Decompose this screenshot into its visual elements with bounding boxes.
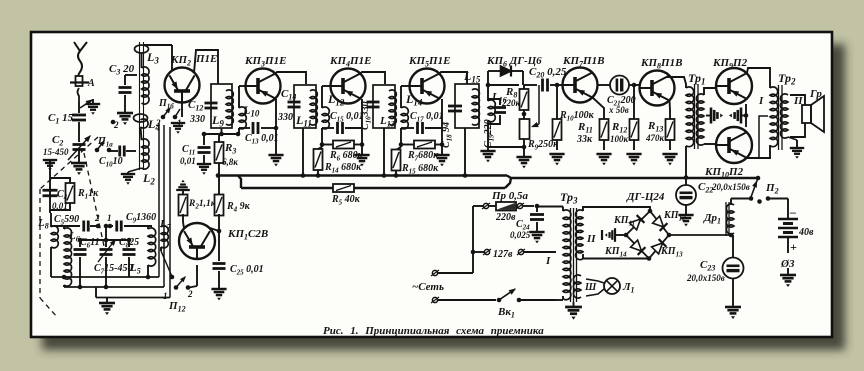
svg-text:С17 0,01: С17 0,01 [410, 111, 444, 124]
svg-text:С18 94: С18 94 [441, 122, 454, 148]
svg-text:330: 330 [189, 114, 205, 125]
svg-text:С19220: С19220 [483, 119, 496, 148]
speaker Гр [790, 88, 824, 137]
svg-text:20,0х150в: 20,0х150в [711, 182, 750, 192]
svg-text:0,01: 0,01 [180, 156, 196, 166]
collector wire КП10 to Тр2 [747, 145, 770, 158]
coil L12 label [327, 92, 345, 108]
wire L3 to КП2 top [143, 45, 172, 70]
svg-text:Пр 0,5а: Пр 0,5а [491, 190, 529, 202]
wire fuse to Тр3 primary [537, 207, 563, 212]
capacitor C25 0,01 [213, 231, 264, 288]
svg-text:С715-450: С715-450 [94, 263, 133, 276]
capacitor C18 94 [441, 106, 462, 148]
svg-text:КП5П1Е: КП5П1Е [408, 55, 450, 69]
bus wire lower with R5 [238, 176, 511, 207]
antenna [70, 42, 95, 102]
capacitor C5 590 [51, 214, 88, 232]
transistor КП10 [704, 127, 752, 180]
svg-text:40в: 40в [798, 227, 814, 238]
svg-text:15-450: 15-450 [43, 147, 69, 157]
svg-text:С16330: С16330 [360, 101, 373, 130]
collector wire КП9 to Тр2 [747, 68, 770, 88]
wire rail 2 [64, 285, 164, 290]
dashed gang line [40, 137, 104, 318]
contact 2 near C3 [111, 120, 119, 130]
svg-text:1: 1 [163, 291, 168, 301]
svg-text:33к: 33к [576, 134, 593, 145]
coil L3 [135, 45, 160, 104]
svg-text:С3 20: С3 20 [109, 63, 135, 77]
coil L14 [401, 86, 410, 130]
wire box3 bottom to bus [382, 128, 387, 178]
capacitor C17 0,01 [401, 111, 444, 134]
collector wire КП [276, 72, 307, 84]
wire box2 bottom to bus [301, 128, 306, 178]
wire II to bridge top [583, 207, 650, 211]
contacts 1 2 coupling [90, 213, 112, 228]
capacitor C14 330 [277, 88, 301, 123]
svg-text:330: 330 [277, 112, 293, 123]
svg-text:С15 0,01: С15 0,01 [330, 111, 364, 124]
resistor R11 33к [576, 98, 609, 151]
resistor R15 680к [392, 147, 440, 178]
svg-text:127в: 127в [493, 249, 513, 260]
svg-text:2: 2 [113, 120, 119, 130]
wire II bottom to bridge [583, 254, 651, 261]
svg-text:х 50в: х 50в [608, 105, 629, 115]
capacitor C10 10 [99, 146, 136, 169]
svg-text:А: А [87, 78, 95, 89]
svg-text:+: + [790, 240, 797, 254]
base lead КП2 [181, 103, 183, 118]
base wire КП10 [704, 143, 716, 145]
ground under C22 [678, 215, 693, 226]
coil L10 label [242, 103, 260, 119]
wire L12 bottom [321, 128, 323, 147]
collector wire КП [440, 72, 468, 84]
transformer Тр1 [686, 71, 706, 149]
chassis arrow right [729, 108, 746, 124]
coil L5 [129, 226, 156, 277]
svg-text:КП4П1Е: КП4П1Е [329, 55, 371, 69]
coil L10 [239, 86, 246, 130]
svg-text:R15 680к: R15 680к [401, 163, 439, 176]
svg-text:ДГ-Ц24: ДГ-Ц24 [626, 191, 665, 203]
ground under C11 [197, 155, 211, 175]
resistor R2 1,1к [176, 180, 217, 222]
coil L14 label [405, 92, 423, 108]
svg-text:~Сеть: ~Сеть [412, 281, 444, 293]
terminals Сеть [412, 206, 496, 303]
wire Тр1 primary bottom to bus [684, 146, 689, 180]
wire L10 bottom to node [236, 128, 241, 136]
ground under R9 [516, 147, 531, 168]
svg-text:470к: 470к [645, 133, 665, 143]
chassis arrow at bridge [602, 228, 626, 242]
ground under L2 [121, 168, 142, 185]
resistor R7 680к [399, 141, 445, 163]
capacitor C8 25 [119, 237, 139, 277]
capacitor C12 330 [188, 99, 218, 125]
ground under R13 [662, 154, 677, 165]
resistor R12 100к [610, 83, 639, 150]
svg-text:2: 2 [187, 289, 193, 299]
transistor КП1 [179, 223, 268, 259]
ground under КП emitter [434, 155, 449, 166]
fuse Пр 0,5а [482, 190, 539, 223]
resistor R14 680к [314, 147, 363, 178]
resistor R8 220к [501, 85, 529, 119]
switch П12 [163, 274, 193, 313]
collector wire КП2 to tank1 [194, 50, 218, 84]
svg-text:R14 680к: R14 680к [324, 162, 362, 175]
svg-text:П1Е: П1Е [195, 53, 217, 65]
tank box 2 with coil L11 [294, 85, 317, 129]
capacitor C9 1360 [111, 212, 156, 232]
bridge ДГ-Ц24 [604, 191, 686, 259]
wire КП1 collector-emitter [183, 222, 221, 233]
chassis arrow under Тр3 [565, 302, 582, 320]
lamp Л1 [586, 278, 635, 296]
electrolytic C23 20,0х150в [669, 233, 744, 306]
ground under КП emitter [268, 155, 283, 166]
collector wire КП [361, 72, 386, 84]
svg-text:20,0х150в: 20,0х150в [686, 273, 725, 283]
svg-text:КП7П1В: КП7П1В [562, 55, 604, 69]
transformer Тр2 [758, 71, 803, 150]
caption [323, 325, 544, 337]
wire rail 3 [96, 287, 170, 298]
svg-text:С25 0,01: С25 0,01 [230, 264, 264, 277]
capacitor C20 0,25 [524, 66, 567, 92]
ground under detector [480, 147, 495, 162]
svg-text:С5590: С5590 [54, 214, 79, 227]
wire detector top [486, 83, 519, 88]
resistor R3 6,8к [215, 134, 239, 175]
coil L12 [322, 86, 331, 130]
network C4 R1 [43, 172, 100, 213]
coil L2 [141, 127, 156, 187]
base lead КП1 [189, 265, 197, 288]
wire top caps row [78, 224, 132, 243]
resistor R6 680к [320, 141, 365, 163]
svg-text:С1 15: С1 15 [48, 112, 74, 126]
capacitor C7 15-450 variable [94, 237, 133, 287]
electrolytic C22 20,0х150в [676, 178, 750, 215]
svg-text:R6 680к: R6 680к [329, 150, 364, 163]
resistor R10 100к [553, 83, 595, 150]
capacitor C3 20 [109, 63, 137, 112]
bus wire upper [216, 173, 758, 178]
svg-text:R5 40к: R5 40к [331, 194, 361, 207]
svg-text:220к: 220к [501, 98, 521, 108]
transistor КП4 [329, 55, 371, 104]
transistor КП8 [640, 57, 683, 106]
capacitor C13 0,01 [239, 122, 279, 146]
switch Вк1 [497, 286, 556, 319]
transistor КП7 [562, 55, 604, 103]
wire Тр3 primary bottom [556, 296, 563, 300]
detector coil L16 [488, 71, 507, 148]
svg-text:Ш: Ш [584, 282, 597, 293]
tap wire Тр2 [759, 116, 768, 158]
svg-text:R11к: R11к [77, 188, 99, 201]
ground of antenna tap [80, 97, 100, 115]
ground under КП emitter [354, 155, 369, 166]
base wire КП9 [704, 88, 716, 95]
ground under battery [780, 275, 796, 287]
chassis arrow left [706, 108, 723, 124]
terminals 127в [473, 249, 556, 260]
wire L14 bottom [400, 128, 402, 147]
transistor КП2 [165, 53, 218, 103]
ground under R11 [596, 154, 611, 165]
ground under Тр2 [788, 137, 804, 159]
svg-text:II: II [586, 233, 596, 245]
resistor R13 470к [645, 101, 675, 151]
tank box 4 with coil L15 [455, 69, 481, 128]
ferrite rod [140, 42, 144, 170]
svg-text:100к: 100к [610, 134, 629, 144]
svg-text:I: I [545, 255, 551, 267]
svg-text:С91360: С91360 [126, 212, 156, 225]
capacitor C2 15-450 variable [43, 133, 93, 160]
svg-text:0,025: 0,025 [510, 230, 531, 240]
transistor КП5 [408, 55, 450, 104]
svg-text:0,01: 0,01 [52, 201, 68, 211]
svg-text:С20 0,25: С20 0,25 [529, 66, 567, 80]
emitter link КП9 КП10 [744, 104, 749, 127]
emitter wire КП [361, 99, 363, 154]
capacitor C24 0,025 [510, 206, 544, 240]
svg-text:КП8П1В: КП8П1В [640, 57, 682, 71]
choke Др1 [703, 199, 751, 237]
transistor КП3 [244, 55, 286, 104]
ground under C25 [211, 289, 226, 300]
wire box4 bottom to bus [463, 128, 468, 178]
diode КП6 ДГ-Ц6 [486, 55, 542, 85]
collector wire КП8 to Тр1 [667, 77, 686, 88]
transformer Тр3 [545, 190, 597, 302]
coil L4 [134, 114, 161, 133]
ground under R12 [626, 154, 641, 165]
svg-text:1: 1 [107, 213, 112, 223]
svg-text:220в: 220в [495, 212, 516, 223]
ground of coil assembly [99, 298, 115, 316]
capacitor C6 11 [74, 237, 100, 287]
electrolytic C21 200x50в [598, 76, 641, 116]
svg-text:R10100к: R10100к [559, 110, 595, 123]
ground under П1б [171, 123, 185, 134]
svg-text:КП3П1Е: КП3П1Е [244, 55, 286, 69]
switch П1а [95, 136, 114, 152]
svg-text:6,8к: 6,8к [222, 157, 238, 167]
coil L8 [37, 213, 58, 277]
svg-text:КП1С2В: КП1С2В [227, 228, 268, 242]
wire rail 1 [51, 275, 159, 280]
capacitor C11 0,01 [180, 134, 211, 166]
battery 40в [768, 199, 814, 275]
wire antenna down [78, 102, 80, 142]
resistor R9 250к volume [520, 85, 560, 152]
svg-text:–: – [789, 205, 796, 219]
link L7 to П12 [161, 251, 172, 277]
ground under C24 [529, 232, 544, 243]
svg-text:R4 9к: R4 9к [226, 201, 251, 214]
tank box 1 with coil L9 [211, 84, 233, 129]
svg-text:Гр: Гр [809, 88, 822, 100]
capacitor C19 220 [483, 99, 506, 148]
ground under C2 [71, 150, 87, 175]
tank box 3 with coil L13 [373, 85, 396, 129]
svg-text:I: I [758, 95, 764, 107]
ground under C23 [725, 307, 741, 319]
capacitor C16 330 [360, 101, 380, 130]
resistor R4 9к [215, 176, 251, 232]
node wire under tank1 [202, 128, 238, 136]
ground above C4 [43, 160, 57, 172]
ground under R10 [549, 154, 564, 165]
coil L7 [159, 218, 172, 251]
coil L6 [64, 226, 80, 287]
long verticals to П12 [159, 123, 170, 298]
svg-text:Рис. 1. Принципиальная схема: Рис. 1. Принципиальная схема приемника [323, 325, 544, 337]
ground under C3 [117, 113, 133, 125]
transistor КП9 [712, 57, 752, 104]
emitter wire КП [441, 99, 443, 154]
svg-text:С13 0,01: С13 0,01 [245, 133, 279, 146]
capacitor C1 15 [48, 112, 86, 126]
svg-text:R21,1к: R21,1к [188, 199, 217, 211]
switch П1б [155, 98, 182, 128]
switch П2 [749, 176, 779, 204]
svg-text:2: 2 [94, 213, 100, 223]
svg-text:С611: С611 [80, 237, 100, 250]
svg-text:R7680к: R7680к [407, 150, 439, 163]
capacitor C15 0,01 [322, 111, 364, 134]
svg-text:2: 2 [155, 118, 161, 128]
emitter wire КП [275, 99, 277, 154]
wire detector bottom [488, 145, 526, 150]
